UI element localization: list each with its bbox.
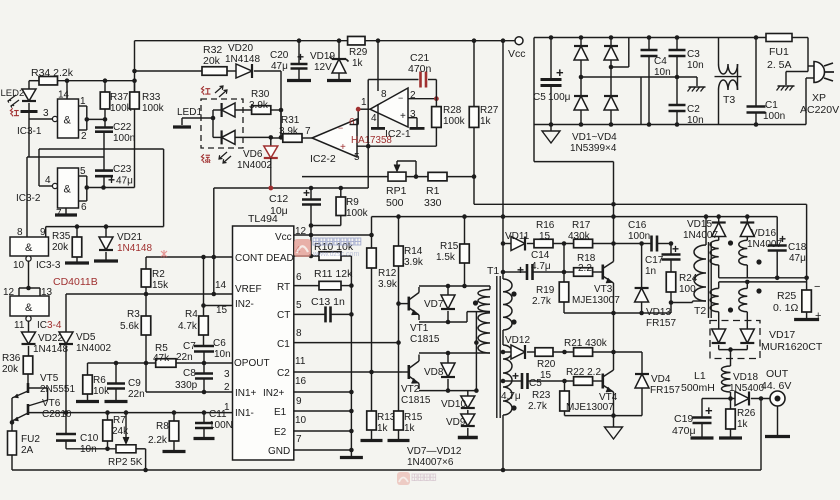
node VD18 anode	[728, 396, 733, 401]
svg-text:3: 3	[224, 369, 230, 380]
diode VD9	[467, 410, 469, 414]
wire bottom bus y415.6	[565, 415, 643, 417]
wire IC2-2 output y146.2	[357, 145, 436, 147]
svg-text:10: 10	[13, 260, 25, 271]
svg-text:1N5399×4: 1N5399×4	[570, 143, 617, 154]
ground R8	[163, 450, 186, 453]
op-amp IC2-2 HA17358	[312, 119, 357, 157]
svg-text:&: &	[64, 115, 72, 127]
transformer T2 secondary lower right	[746, 282, 748, 289]
svg-text:7: 7	[305, 126, 311, 137]
svg-text:3.9k: 3.9k	[249, 100, 269, 111]
resistor R29 1k	[348, 36, 365, 45]
phase dot T2 sec upper left	[728, 240, 733, 245]
svg-text:1n: 1n	[645, 266, 656, 277]
svg-text:VD10: VD10	[441, 399, 466, 410]
svg-text:L1: L1	[694, 370, 706, 382]
svg-text:R19: R19	[536, 285, 555, 296]
node VD13 top	[639, 241, 644, 246]
node RP1-R1	[414, 174, 419, 179]
svg-text:FR157: FR157	[650, 385, 680, 396]
svg-text:10n: 10n	[687, 115, 704, 126]
svg-text:VD1~VD4: VD1~VD4	[572, 132, 617, 143]
svg-text:IN2+: IN2+	[263, 388, 285, 399]
wire pins1-2 to R37 bottom	[87, 118, 105, 120]
svg-text:C8: C8	[183, 368, 196, 379]
svg-text:T3: T3	[723, 94, 735, 106]
wire VD17 cathodes join	[719, 349, 748, 351]
svg-text:10n: 10n	[687, 60, 704, 71]
svg-text:CT: CT	[277, 310, 290, 321]
wire feedback from IC2-1 out	[357, 109, 359, 124]
phase dot T2 sec lower right	[756, 288, 761, 293]
wire IN2- stub	[204, 305, 233, 307]
resistor R35 20k	[76, 227, 78, 237]
svg-text:R15: R15	[440, 241, 459, 252]
wire top rail y41 from x134.5 to Vcc	[135, 40, 521, 42]
wire plug neutral	[805, 78, 807, 125]
transformer T1 core	[496, 276, 498, 418]
svg-text:VD12: VD12	[505, 335, 530, 346]
wire IC2-1 pin2	[408, 98, 436, 100]
svg-text:330: 330	[424, 197, 442, 209]
svg-text:VD7—VD12: VD7—VD12	[407, 446, 462, 457]
node C18 bottom	[775, 276, 780, 281]
transformer T2 core	[708, 242, 710, 318]
svg-text:+: +	[556, 65, 564, 80]
svg-text:1N4148: 1N4148	[225, 54, 260, 65]
resistor R2 15k	[145, 257, 147, 269]
svg-text:R26: R26	[737, 408, 756, 419]
capacitor C21 470n dark red	[368, 79, 418, 81]
transformer T2 secondary upper left	[710, 240, 719, 265]
wire GND stub	[294, 449, 352, 451]
ground TL494 bus	[340, 456, 363, 459]
resistor R1 330	[406, 176, 428, 178]
svg-text:4.7μ: 4.7μ	[531, 261, 551, 272]
wire AC leg1 to filter	[581, 76, 677, 78]
resistor R7 24k	[107, 413, 109, 420]
svg-text:12V: 12V	[314, 62, 332, 73]
svg-text:OUT: OUT	[766, 368, 789, 380]
svg-text:VD16: VD16	[751, 228, 776, 239]
svg-text:C5: C5	[529, 378, 542, 389]
svg-text:10: 10	[295, 415, 307, 426]
diode VD13 FR157	[641, 244, 643, 289]
svg-text:+: +	[297, 50, 304, 64]
svg-text:C17: C17	[645, 255, 664, 266]
phase dot T2 sec lower left	[728, 307, 733, 312]
svg-text:8: 8	[296, 328, 302, 339]
svg-text:470n: 470n	[408, 63, 432, 75]
node C14-R19	[562, 270, 567, 275]
svg-text:1k: 1k	[737, 419, 749, 430]
node bridge leg2 mid	[609, 65, 614, 70]
node C1 wire riser	[396, 340, 401, 345]
resistor R26 1k	[730, 399, 732, 410]
ground OUT	[777, 406, 779, 435]
diode VD10	[467, 391, 469, 396]
svg-text:0. 1Ω: 0. 1Ω	[773, 302, 799, 314]
wire T1 secondary riser upper	[502, 217, 504, 279]
svg-text:15k: 15k	[152, 280, 169, 291]
resistor R36 20k	[23, 356, 33, 374]
svg-text:R37: R37	[110, 92, 129, 103]
potentiometer RP1 500	[388, 172, 406, 181]
svg-text:R15: R15	[404, 412, 423, 423]
svg-text:R22 2.2: R22 2.2	[566, 367, 601, 378]
capacitor C22 100n	[104, 119, 106, 127]
svg-text:VT5: VT5	[40, 373, 59, 384]
LED2	[28, 81, 30, 89]
svg-text:1N5400: 1N5400	[729, 383, 764, 394]
node R37-C22	[103, 117, 108, 122]
svg-text:9: 9	[296, 396, 302, 407]
svg-text:C2: C2	[687, 104, 700, 115]
svg-text:RT: RT	[277, 282, 290, 293]
node R12 R13 riser on C2 wire	[369, 370, 374, 375]
node R29 right pin8 riser	[376, 38, 381, 43]
svg-text:MUR1620CT: MUR1620CT	[761, 341, 823, 353]
svg-text:R9: R9	[346, 197, 359, 208]
wire VT2 emitter y390.6	[419, 390, 476, 392]
watermark text center	[313, 238, 361, 245]
svg-text:−: −	[398, 93, 403, 103]
svg-text:&: &	[64, 184, 72, 196]
wire IC2-2 out down to VD6 row	[367, 146, 369, 188]
wire bridge bottom bus y124.5	[534, 124, 806, 126]
ground C11	[194, 437, 215, 440]
svg-text:C23: C23	[113, 164, 132, 175]
resistor R23 2.7k	[564, 381, 566, 391]
node C8 bottom IN1+	[202, 390, 207, 395]
ground VD21	[94, 259, 118, 262]
green LED arrows	[219, 152, 227, 159]
op-amp IC2-1 HA17358	[370, 88, 408, 127]
capacitor C18 47u	[776, 217, 778, 246]
svg-text:C1: C1	[765, 100, 778, 111]
diode VD20 1N4148	[227, 70, 236, 72]
svg-text:5: 5	[80, 166, 86, 177]
wire R24 to T2 primary bottom	[671, 302, 693, 304]
node R37 top junction	[103, 78, 108, 83]
node C23 bottom	[101, 185, 106, 190]
svg-text:R29: R29	[349, 47, 368, 58]
node lower feed	[745, 280, 750, 285]
node bridge leg1 top	[579, 35, 584, 40]
wire aux rail extension to VD16	[719, 216, 778, 218]
capacitor C9 22n	[115, 363, 117, 384]
wire E1 stub	[294, 410, 352, 412]
node RP2 right on bottom rail	[143, 468, 148, 473]
svg-text:R34 2.2k: R34 2.2k	[31, 67, 74, 79]
svg-text:47μ: 47μ	[271, 61, 288, 72]
svg-text:C9: C9	[128, 378, 141, 389]
zener VD19 12V	[337, 38, 342, 43]
svg-text:R14: R14	[404, 246, 423, 257]
svg-text:3.9k: 3.9k	[404, 257, 424, 268]
wire VREF y294	[66, 293, 233, 295]
resistor R25 0.1ohm	[806, 282, 808, 290]
svg-text:MJE13007: MJE13007	[566, 402, 614, 413]
node primary riser bottom	[474, 388, 479, 393]
node R8 top	[172, 410, 177, 415]
node CONT dots	[201, 255, 206, 260]
wire emitter bus y313	[564, 312, 671, 314]
svg-text:C6: C6	[213, 338, 226, 349]
svg-text:R25: R25	[777, 290, 796, 302]
svg-text:VD8: VD8	[424, 367, 444, 378]
svg-text:1: 1	[80, 96, 86, 107]
node R7 bottom	[105, 447, 110, 452]
svg-text:2. 5A: 2. 5A	[767, 59, 792, 71]
transformer T2 secondary upper right	[739, 240, 748, 265]
wire IC3-1 pin14 riser	[66, 81, 68, 99]
gate IC3-2 CD4011 NAND	[38, 149, 40, 186]
resistor R34 2.2k	[39, 76, 58, 85]
capacitor C4 10n	[647, 35, 652, 40]
svg-text:VD9: VD9	[446, 417, 466, 428]
wire T1 primary mid tap	[466, 312, 468, 322]
node R21 right	[611, 350, 616, 355]
svg-text:+: +	[400, 111, 406, 122]
resistor R11 12k	[294, 285, 319, 287]
svg-text:R2: R2	[152, 269, 165, 280]
svg-text:1.5k: 1.5k	[436, 252, 456, 263]
svg-text:R12: R12	[378, 268, 397, 279]
resistor R8 2.2k	[173, 413, 175, 421]
wire leg2 mid loop to rail	[611, 66, 629, 68]
ground VD9	[458, 436, 478, 439]
node CT bus	[349, 312, 354, 317]
svg-text:20k: 20k	[52, 242, 69, 253]
node C9 top	[114, 361, 119, 366]
terminal Vcc	[515, 37, 523, 45]
svg-text:1k: 1k	[480, 116, 492, 127]
svg-text:C12: C12	[269, 193, 288, 205]
svg-text:T2: T2	[694, 305, 706, 317]
svg-text:R1: R1	[426, 185, 440, 197]
watermark logo center	[294, 239, 311, 257]
svg-text:1: 1	[224, 402, 230, 413]
node VT3 collector aux rail	[611, 214, 616, 219]
svg-text:VREF: VREF	[235, 284, 262, 295]
svg-text:VD5: VD5	[76, 332, 96, 343]
svg-text:C14: C14	[531, 250, 550, 261]
transformer T3 line filter	[718, 38, 720, 65]
wire IN1+ y392	[145, 363, 147, 392]
node R2-R3	[144, 292, 149, 297]
wire bottom rail	[12, 469, 761, 471]
wire IN2+ stub	[294, 391, 352, 393]
node C1 top	[754, 35, 759, 40]
svg-text:IC3-2: IC3-2	[16, 193, 41, 204]
node IC2-2 out	[366, 144, 371, 149]
wire RP2 row y448.8	[66, 448, 116, 450]
svg-text:1N4148: 1N4148	[33, 344, 68, 355]
svg-text:100k: 100k	[142, 103, 165, 114]
svg-text:+: +	[303, 186, 310, 200]
svg-text:C19: C19	[674, 413, 693, 425]
svg-text:+: +	[108, 173, 115, 187]
ground R25	[794, 318, 819, 321]
node R14 riser on aux rail	[396, 214, 401, 219]
svg-text:T1: T1	[487, 265, 499, 277]
svg-text:3-4: 3-4	[47, 320, 62, 331]
svg-text:1k: 1k	[377, 423, 389, 434]
svg-text:XP: XP	[812, 92, 826, 104]
svg-text:R27: R27	[480, 105, 499, 116]
svg-text:1k: 1k	[404, 423, 416, 434]
resistor R20 15	[535, 348, 553, 357]
capacitor C10 10n	[65, 413, 67, 434]
svg-text:R21 430k: R21 430k	[564, 338, 608, 349]
inductor L1 500mH	[730, 350, 732, 366]
svg-text:AC220V: AC220V	[800, 104, 839, 116]
node bridge leg1 mid	[579, 75, 584, 80]
watermark red mark	[161, 250, 167, 258]
transformer T2 primary winding	[705, 217, 707, 245]
node LED1 common	[211, 116, 216, 121]
node VD16 top	[745, 214, 750, 219]
resistor R4 4.7k	[199, 316, 209, 335]
wire pin3 of IC3-1	[29, 118, 52, 120]
svg-text:22n: 22n	[176, 352, 193, 363]
svg-text:100k: 100k	[443, 116, 466, 127]
diode VD3 bridge	[580, 77, 582, 96]
svg-text:R16: R16	[536, 220, 555, 231]
svg-text:LED1: LED1	[177, 107, 202, 118]
capacitor C7 22n	[194, 345, 214, 348]
plug XP AC220V	[814, 62, 825, 83]
svg-text:100k: 100k	[346, 208, 369, 219]
wire aux rail y216.6	[372, 216, 719, 218]
ground C19	[691, 436, 714, 439]
svg-text:4.7μ: 4.7μ	[501, 391, 521, 402]
svg-text:IN2-: IN2-	[235, 299, 254, 310]
svg-text:2N5551: 2N5551	[40, 384, 75, 395]
svg-text:VD21: VD21	[117, 232, 142, 243]
svg-text:C22: C22	[113, 122, 132, 133]
fuse FU1 2.5A	[766, 34, 792, 42]
wire CONT y257	[146, 256, 233, 258]
node pin2 C21 red	[434, 96, 439, 101]
node T1 secondary riser on aux rail	[501, 214, 506, 219]
svg-text:1: 1	[361, 97, 367, 108]
diode VD22 1N4148	[28, 321, 30, 332]
node R35 top	[75, 224, 80, 229]
node C12 top	[309, 186, 314, 191]
ground VT4 emitter triangle	[605, 427, 623, 439]
svg-text:FR157: FR157	[646, 318, 676, 329]
svg-text:15: 15	[539, 231, 551, 242]
svg-text:R20: R20	[537, 359, 556, 370]
resistor R3 5.6k	[145, 294, 147, 316]
wire AC neutral jog	[640, 77, 642, 125]
svg-text:VD13: VD13	[646, 307, 671, 318]
resistor R30 3.9k	[252, 106, 271, 115]
svg-text:C1815: C1815	[401, 395, 431, 406]
wire OPOUT y363	[88, 362, 156, 364]
svg-text:R4: R4	[185, 309, 198, 320]
svg-text:R36: R36	[2, 353, 21, 364]
capacitor C17 1n polarized	[670, 244, 672, 255]
svg-text:2.7k: 2.7k	[528, 401, 548, 412]
svg-text:100n: 100n	[113, 133, 135, 144]
resistor R19 2.7k	[559, 282, 569, 302]
node R15b bottom on collector wire	[462, 284, 467, 289]
svg-text:E1: E1	[274, 407, 287, 418]
node VD11 tap	[501, 241, 506, 246]
node R7 top	[105, 410, 110, 415]
node VT1 base	[396, 301, 401, 306]
node IN2- riser	[201, 303, 206, 308]
svg-text:C1: C1	[277, 339, 290, 350]
svg-text:6: 6	[81, 202, 87, 213]
node R9 top	[339, 186, 344, 191]
svg-text:430k: 430k	[568, 231, 591, 242]
node VT3 collector on HV wire	[611, 202, 616, 207]
svg-text:C18: C18	[788, 242, 807, 253]
wire pin9 riser	[45, 227, 47, 237]
node R5-C7	[202, 361, 207, 366]
svg-text:IC3-3: IC3-3	[36, 260, 61, 271]
svg-text:IC: IC	[37, 320, 47, 331]
node bridge leg2 top	[609, 35, 614, 40]
node VT5 VT6 emitters	[10, 420, 15, 425]
svg-text:6: 6	[349, 117, 355, 128]
svg-text:VT2: VT2	[401, 384, 420, 395]
svg-text:20k: 20k	[203, 55, 221, 67]
node R16-R17	[562, 241, 567, 246]
wire RP1 row y176.6	[302, 176, 388, 178]
svg-text:47μ: 47μ	[116, 176, 133, 187]
resistor R28 100k	[435, 99, 437, 107]
node RT bus	[349, 283, 354, 288]
resistor R12 3.9k	[371, 217, 373, 248]
svg-text:4.7k: 4.7k	[178, 321, 198, 332]
diode VD17b	[740, 329, 754, 343]
IC TL494 box	[233, 226, 294, 460]
transistor VT5 2N5551	[27, 374, 29, 383]
terminal OUT 44.6V	[770, 391, 785, 406]
svg-text:+: +	[517, 263, 524, 277]
svg-text:www.dzsc.com: www.dzsc.com	[312, 251, 359, 258]
svg-text:GND: GND	[268, 446, 290, 457]
wire output to bottom rail	[760, 399, 762, 471]
svg-text:VD20: VD20	[228, 43, 253, 54]
svg-text:22n: 22n	[128, 389, 145, 400]
svg-text:2: 2	[81, 131, 87, 142]
watermark logo bottom	[397, 472, 410, 485]
gate IC3-1 CD4011 NAND	[52, 116, 57, 121]
node C3 C2 mid	[675, 75, 680, 80]
node VD15 top	[716, 214, 721, 219]
wire C5b row y381	[503, 380, 514, 382]
wire VT1 collector y286	[419, 285, 490, 287]
svg-text:100n: 100n	[763, 111, 785, 122]
wire lineA pin4 net y149	[39, 148, 164, 150]
node VD21 top	[104, 224, 109, 229]
svg-text:2.2k: 2.2k	[148, 435, 168, 446]
transistor VT6 C2810	[27, 404, 30, 415]
label lv green	[201, 154, 210, 163]
resistor R15b 1.5k	[464, 217, 466, 244]
node C16-C17	[669, 241, 674, 246]
node pins1-2	[85, 117, 90, 122]
label hong red LED2	[10, 108, 19, 116]
svg-text:C2: C2	[277, 368, 290, 379]
